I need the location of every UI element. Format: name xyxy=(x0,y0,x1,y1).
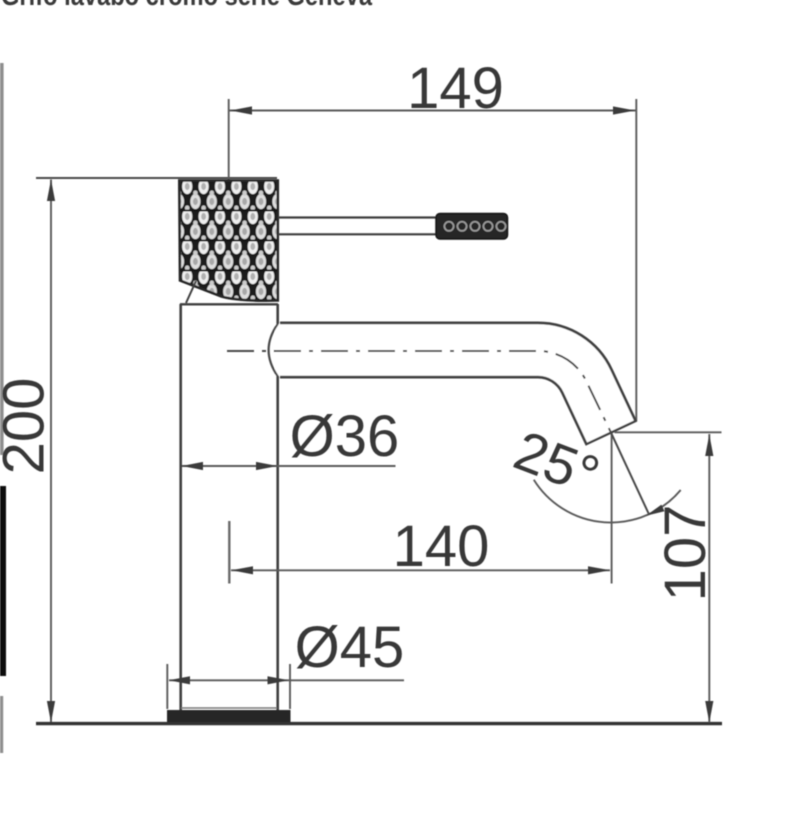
arrow 140 left xyxy=(232,566,254,574)
svg-text:200: 200 xyxy=(0,378,57,475)
left page-edge gray line (upper) xyxy=(0,63,4,455)
spout tube outline (black understroke) xyxy=(280,350,612,434)
25deg dimension arc xyxy=(534,480,681,523)
lever knob (knurled) xyxy=(436,214,508,240)
left page-edge black bar xyxy=(0,486,6,676)
top extension line 107 xyxy=(615,431,722,433)
svg-text:107: 107 xyxy=(653,505,718,602)
arrow D45 left xyxy=(169,676,190,684)
faucet body top line xyxy=(180,303,278,305)
ground line xyxy=(36,722,722,725)
faucet body right edge xyxy=(276,304,279,710)
extension line 149 left xyxy=(228,99,230,181)
dimension line D36 xyxy=(182,465,396,467)
centerline dash-dot through spout xyxy=(227,351,611,432)
extension line D45 left xyxy=(166,664,168,709)
arrow 149 left xyxy=(231,106,253,114)
handle knurled head xyxy=(179,181,277,301)
dimension line 140 xyxy=(231,569,610,571)
extension line top (200 dim) xyxy=(36,177,277,179)
dimension line D45 xyxy=(169,679,404,681)
lever rod bottom line xyxy=(278,233,437,235)
arrow 107 top xyxy=(705,435,713,457)
dimension line 149 xyxy=(230,110,637,112)
spout tube fill (white overstroke) xyxy=(275,350,611,432)
arrow 140 right xyxy=(588,566,610,574)
dimension line 200 xyxy=(50,180,52,723)
25deg axis diagonal line xyxy=(611,433,648,513)
extension line 140 right / 25deg vertical xyxy=(611,433,613,584)
svg-text:Ø36: Ø36 xyxy=(290,404,400,469)
handle neck diagonal line xyxy=(186,281,196,303)
extension line D45 right xyxy=(289,664,291,709)
knurl band lines xyxy=(180,211,277,271)
arrow 107 bottom xyxy=(705,701,713,723)
extension line 149/outlet right xyxy=(635,99,637,421)
svg-text:140: 140 xyxy=(393,514,490,579)
dimension line 107 xyxy=(708,434,710,723)
tube/body junction bulge arc xyxy=(269,324,278,376)
arrow D36 right xyxy=(256,462,278,470)
svg-text:149: 149 xyxy=(407,56,504,121)
lever rod top line xyxy=(278,216,437,218)
arrow D36 left xyxy=(182,462,203,470)
left page-edge gray line (lower) xyxy=(0,696,3,753)
arrow 200 bottom xyxy=(47,701,55,723)
arrow 200 top xyxy=(47,180,55,202)
svg-text:Ø45: Ø45 xyxy=(295,615,405,680)
arrow 149 right xyxy=(613,106,635,114)
arrow D45 right xyxy=(268,676,289,684)
arrow on arc xyxy=(646,505,665,516)
base top thin line xyxy=(181,707,277,709)
base pad (black) xyxy=(167,710,291,724)
axis extension tick (140 left) xyxy=(228,521,230,584)
svg-text:Grifo lavabo cromo serie Genev: Grifo lavabo cromo serie Geneva xyxy=(1,0,373,12)
faucet body left edge xyxy=(179,304,182,710)
